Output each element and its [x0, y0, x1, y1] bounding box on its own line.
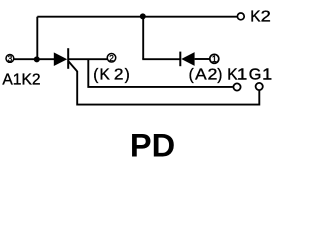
terminal 2: [107, 53, 116, 63]
wire gate run: [77, 71, 259, 105]
wire K1 tap: [88, 59, 233, 87]
svg-text:1: 1: [212, 54, 217, 64]
terminal K1: [233, 83, 240, 90]
terminal 3: [6, 53, 14, 63]
svg-text:(A2): (A2): [189, 66, 223, 83]
wire top rail: [37, 16, 237, 18]
wire to diode cathode: [142, 58, 180, 60]
wire diode drop: [142, 17, 144, 60]
svg-text:(K2): (K2): [93, 66, 129, 83]
wire thyristor cathode: [68, 58, 108, 60]
svg-text:3: 3: [8, 53, 13, 63]
svg-text:K1: K1: [227, 66, 247, 83]
svg-text:PD: PD: [130, 127, 175, 160]
svg-text:A1K2: A1K2: [2, 71, 40, 88]
svg-text:G1: G1: [249, 66, 272, 83]
wire left riser: [36, 17, 38, 60]
terminal 1: [210, 54, 219, 64]
wire diode anode: [195, 58, 210, 60]
node junction left: [34, 56, 40, 62]
svg-text:K2: K2: [250, 8, 271, 25]
terminal G1: [256, 83, 263, 90]
diode D1: [180, 52, 194, 67]
node junction top: [140, 13, 146, 19]
svg-text:2: 2: [109, 53, 114, 63]
terminal K2: [237, 13, 244, 20]
wire thyristor anode: [14, 58, 55, 60]
thyristor Q1: [54, 48, 77, 71]
